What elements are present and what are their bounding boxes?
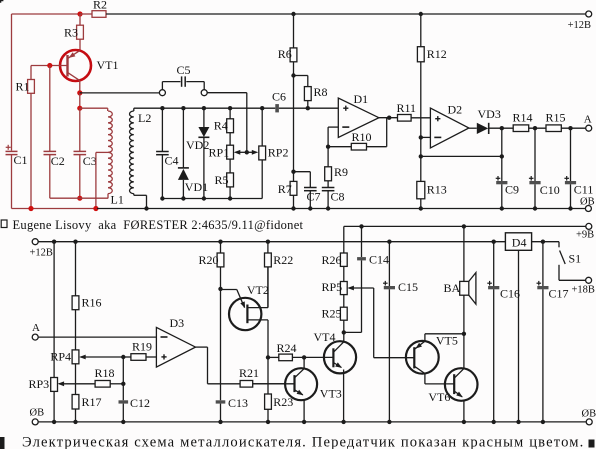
svg-text:VT3: VT3 bbox=[320, 387, 342, 401]
wire bbox=[50, 197, 108, 199]
svg-text:VT4: VT4 bbox=[314, 330, 336, 344]
resistor R12 bbox=[417, 14, 446, 181]
resistor R24 bbox=[268, 341, 333, 361]
node bbox=[387, 240, 391, 244]
op-amp D3 bbox=[156, 316, 195, 367]
wire bbox=[11, 14, 13, 151]
diode VD3 bbox=[469, 107, 513, 134]
svg-text:VD1: VD1 bbox=[185, 180, 208, 194]
node bbox=[500, 154, 504, 158]
terminal +18V bbox=[572, 277, 595, 295]
wire bus bbox=[279, 107, 338, 109]
wire bbox=[421, 155, 502, 157]
svg-text:L2: L2 bbox=[138, 111, 151, 125]
svg-text:C1: C1 bbox=[14, 153, 28, 167]
wiper bbox=[234, 150, 247, 155]
resistor R26 bbox=[322, 226, 348, 266]
resistor R19 bbox=[123, 340, 156, 361]
svg-text:R5: R5 bbox=[215, 173, 229, 187]
svg-text:C13: C13 bbox=[228, 396, 248, 410]
resistor R1 bbox=[16, 66, 35, 209]
svg-text:A: A bbox=[32, 322, 40, 334]
node bbox=[342, 330, 346, 334]
svg-text:R22: R22 bbox=[273, 253, 293, 267]
node bbox=[202, 196, 206, 200]
wire bbox=[75, 242, 77, 350]
svg-text:R17: R17 bbox=[82, 395, 102, 409]
svg-text:R10: R10 bbox=[352, 130, 372, 144]
svg-text:R15: R15 bbox=[546, 111, 566, 125]
node bbox=[291, 206, 295, 210]
node bbox=[202, 106, 206, 110]
wire bbox=[38, 336, 156, 338]
svg-text:Eugene Lisovy aka FØRESTER 2: Eugene Lisovy aka FØRESTER 2:4635/9.11@f… bbox=[13, 218, 304, 232]
node bbox=[228, 196, 232, 200]
diode VD2 bbox=[186, 108, 209, 198]
svg-text:R2: R2 bbox=[93, 0, 107, 11]
svg-text:D2: D2 bbox=[448, 102, 463, 116]
capacitor C12 bbox=[119, 396, 151, 422]
svg-text:R13: R13 bbox=[427, 183, 447, 197]
svg-text:C3: C3 bbox=[83, 154, 97, 168]
svg-text:R14: R14 bbox=[513, 111, 533, 125]
svg-text:ØВ: ØВ bbox=[30, 408, 45, 419]
svg-text:R6: R6 bbox=[278, 47, 292, 61]
terminal 0V bbox=[582, 408, 596, 425]
connector bbox=[201, 90, 207, 96]
wire bbox=[53, 242, 55, 378]
corner mark bbox=[0, 0, 3, 3]
svg-text:R11: R11 bbox=[397, 101, 417, 115]
node bbox=[462, 420, 466, 424]
node bbox=[181, 196, 185, 200]
svg-text:R8: R8 bbox=[314, 85, 328, 99]
wire bbox=[379, 117, 398, 119]
node bbox=[47, 63, 52, 68]
svg-text:S1: S1 bbox=[569, 251, 582, 265]
transistor VT2 bbox=[221, 267, 269, 358]
node bbox=[462, 332, 466, 336]
svg-text:C16: C16 bbox=[500, 286, 520, 300]
node bbox=[291, 12, 295, 16]
transistor VT5 bbox=[406, 334, 464, 384]
node bbox=[73, 420, 77, 424]
svg-text:R7: R7 bbox=[278, 182, 292, 196]
node bbox=[387, 116, 391, 120]
svg-text:VD2: VD2 bbox=[186, 138, 209, 152]
transistor VT6 bbox=[428, 334, 477, 422]
transistor VT1 bbox=[31, 50, 119, 81]
svg-text:RP3: RP3 bbox=[29, 377, 50, 391]
potentiometer RP4 bbox=[50, 350, 79, 364]
node bbox=[121, 382, 125, 386]
svg-text:C15: C15 bbox=[398, 280, 418, 294]
node bbox=[245, 150, 249, 154]
svg-text:RP4: RP4 bbox=[50, 350, 71, 364]
node bbox=[144, 206, 148, 210]
svg-text:VT1: VT1 bbox=[97, 58, 119, 72]
svg-text:+9В: +9В bbox=[576, 230, 594, 241]
node bbox=[492, 240, 496, 244]
node bbox=[73, 240, 77, 244]
capacitor C16 bbox=[487, 242, 520, 422]
node bbox=[541, 240, 545, 244]
svg-text:R20: R20 bbox=[199, 253, 219, 267]
capacitor C14 bbox=[344, 226, 389, 332]
inductor L2 bbox=[130, 108, 152, 208]
wiper bbox=[247, 150, 258, 155]
wire bbox=[293, 76, 295, 182]
wire bbox=[79, 108, 81, 151]
resistor R9 bbox=[325, 147, 348, 181]
svg-text:C17: C17 bbox=[549, 286, 569, 300]
node bbox=[419, 12, 423, 16]
resistor R6 bbox=[278, 14, 297, 76]
terminal A bbox=[32, 322, 40, 340]
wire bbox=[303, 357, 305, 368]
wire +9V line bbox=[344, 225, 586, 227]
node bbox=[419, 154, 423, 158]
resistor R21 bbox=[239, 366, 285, 387]
wire bbox=[196, 347, 241, 384]
op-amp D1 bbox=[338, 92, 379, 137]
node bbox=[291, 170, 295, 174]
svg-text:R9: R9 bbox=[334, 165, 348, 179]
wire bbox=[12, 13, 81, 15]
node bbox=[308, 206, 312, 210]
svg-text:R16: R16 bbox=[82, 296, 102, 310]
capacitor C9 bbox=[496, 128, 519, 208]
resistor R5 bbox=[215, 159, 234, 198]
potentiometer RP3 bbox=[29, 377, 58, 422]
wire bus bbox=[134, 107, 275, 109]
terminal +12V bbox=[568, 11, 592, 31]
resistor R25 bbox=[322, 295, 348, 333]
svg-text:VT2: VT2 bbox=[247, 283, 269, 297]
svg-text:R26: R26 bbox=[322, 253, 342, 267]
resistor R15 bbox=[546, 111, 586, 132]
capacitor C1 bbox=[6, 145, 28, 209]
resistor R8 bbox=[294, 76, 328, 109]
resistor R23 bbox=[265, 357, 294, 422]
resistor R10 bbox=[328, 118, 387, 150]
diode VD1 bbox=[178, 108, 208, 198]
resistor R7 bbox=[278, 181, 297, 208]
svg-text:R21: R21 bbox=[239, 366, 259, 380]
resistor R20 bbox=[199, 242, 224, 289]
node bbox=[533, 206, 537, 210]
terminal A bbox=[584, 113, 592, 131]
svg-text:C8: C8 bbox=[331, 189, 345, 203]
node bbox=[228, 106, 232, 110]
node bbox=[492, 420, 496, 424]
resistor R22 bbox=[265, 242, 294, 308]
resistor R3 bbox=[64, 14, 83, 51]
wiper bbox=[347, 286, 414, 358]
terminal 0V bbox=[30, 408, 45, 425]
transistor VT4 bbox=[314, 330, 357, 422]
node bbox=[359, 224, 363, 228]
node bbox=[462, 224, 466, 228]
inductor L1 bbox=[80, 108, 124, 206]
wire 0V rail bbox=[38, 421, 586, 423]
node bbox=[77, 90, 82, 95]
wire bbox=[328, 127, 338, 147]
svg-text:C6: C6 bbox=[272, 90, 286, 104]
regulator D4 bbox=[505, 233, 559, 422]
text bbox=[0, 434, 595, 449]
wire bbox=[106, 13, 586, 15]
svg-text:R3: R3 bbox=[64, 25, 78, 39]
wire bbox=[49, 66, 51, 152]
capacitor C13 bbox=[216, 289, 248, 422]
node bbox=[326, 206, 330, 210]
wire bbox=[79, 93, 81, 108]
resistor R14 bbox=[513, 111, 547, 132]
speaker BA bbox=[444, 273, 476, 334]
wire bbox=[79, 81, 81, 93]
svg-text:C11: C11 bbox=[574, 182, 594, 196]
wire bbox=[162, 198, 262, 200]
resistor R4 bbox=[214, 108, 234, 133]
potentiometer RP1 bbox=[209, 133, 234, 160]
switch S1 bbox=[559, 242, 586, 281]
wire 0V rail bbox=[97, 208, 585, 210]
svg-text:BA: BA bbox=[444, 281, 461, 295]
node bbox=[181, 106, 185, 110]
wire bbox=[207, 93, 247, 153]
potentiometer RP5 bbox=[322, 266, 348, 294]
node bbox=[568, 126, 572, 130]
node bbox=[516, 420, 520, 424]
svg-text:+12В: +12В bbox=[30, 247, 53, 258]
svg-text:D3: D3 bbox=[170, 316, 185, 330]
capacitor C10 bbox=[529, 128, 560, 208]
capacitor C8 bbox=[322, 181, 345, 209]
svg-text:ØВ: ØВ bbox=[582, 408, 596, 419]
node bbox=[341, 420, 345, 424]
svg-text:VT6: VT6 bbox=[428, 390, 450, 404]
svg-text:ØВ: ØВ bbox=[580, 196, 595, 207]
node bbox=[121, 420, 125, 424]
svg-text:Электрическая схема металлоиск: Электрическая схема металлоискателя. Пер… bbox=[22, 434, 584, 449]
node bbox=[160, 196, 164, 200]
node bbox=[52, 240, 56, 244]
resistor R11 bbox=[397, 101, 431, 121]
svg-text:VT5: VT5 bbox=[436, 334, 458, 348]
svg-text:D4: D4 bbox=[512, 235, 527, 249]
wire bbox=[80, 92, 160, 94]
terminal +12V bbox=[30, 239, 53, 259]
resistor R2 bbox=[80, 0, 107, 17]
svg-text:R19: R19 bbox=[132, 340, 152, 354]
node bbox=[266, 420, 270, 424]
wire tap bbox=[96, 152, 108, 208]
capacitor C3 bbox=[74, 151, 97, 198]
svg-text:D1: D1 bbox=[354, 92, 369, 106]
resistor R16 bbox=[72, 296, 101, 310]
node bbox=[28, 206, 33, 211]
svg-text:R25: R25 bbox=[322, 307, 342, 321]
node bbox=[326, 145, 330, 149]
wire bbox=[12, 208, 98, 210]
resistor R13 bbox=[417, 181, 447, 208]
capacitor C6 bbox=[272, 90, 286, 113]
svg-text:+18В: +18В bbox=[572, 285, 595, 296]
node bbox=[500, 126, 504, 130]
node bbox=[218, 240, 222, 244]
svg-text:RP1: RP1 bbox=[209, 146, 230, 160]
wire bbox=[122, 357, 124, 400]
resistor R17 bbox=[72, 364, 101, 422]
node bbox=[419, 206, 423, 210]
capacitor C2 bbox=[44, 151, 65, 198]
node bbox=[291, 73, 295, 77]
capacitor C17 bbox=[537, 242, 569, 422]
node bbox=[533, 126, 537, 130]
node bbox=[419, 135, 423, 139]
transistor VT3 bbox=[253, 368, 342, 422]
wire bbox=[463, 226, 465, 281]
node bbox=[306, 106, 310, 110]
node bbox=[218, 420, 222, 424]
wiper bbox=[58, 381, 96, 386]
node bbox=[160, 106, 164, 110]
node bbox=[387, 420, 391, 424]
node bbox=[500, 206, 504, 210]
node bbox=[266, 240, 270, 244]
capacitor C7 bbox=[294, 172, 321, 209]
svg-text:C14: C14 bbox=[369, 253, 389, 267]
wiper bbox=[79, 355, 123, 360]
resistor R18 bbox=[95, 366, 124, 387]
node bbox=[77, 106, 82, 111]
svg-text:C4: C4 bbox=[165, 153, 179, 167]
svg-text:R1: R1 bbox=[16, 79, 30, 93]
op-amp D2 bbox=[430, 102, 469, 147]
node bbox=[302, 355, 306, 359]
svg-text:+12В: +12В bbox=[568, 20, 591, 31]
svg-text:R12: R12 bbox=[427, 47, 447, 61]
connector bbox=[159, 90, 165, 96]
node bbox=[77, 11, 82, 16]
node bbox=[77, 196, 82, 201]
terminal +9V bbox=[576, 223, 594, 240]
svg-text:C2: C2 bbox=[51, 154, 65, 168]
wire bbox=[421, 136, 431, 138]
wire +12V rail bbox=[38, 241, 505, 243]
svg-text:R24: R24 bbox=[277, 341, 297, 355]
capacitor C4 bbox=[156, 108, 178, 198]
node bbox=[568, 206, 572, 210]
node bbox=[218, 287, 222, 291]
svg-text:C9: C9 bbox=[505, 182, 519, 196]
svg-text:A: A bbox=[584, 113, 592, 125]
node bbox=[302, 420, 306, 424]
svg-text:VD3: VD3 bbox=[478, 107, 501, 121]
node bbox=[541, 420, 545, 424]
potentiometer RP2 bbox=[259, 108, 289, 198]
svg-text:C7: C7 bbox=[307, 189, 321, 203]
capacitor C15 bbox=[383, 242, 418, 422]
text bbox=[1, 218, 303, 232]
svg-text:C5: C5 bbox=[177, 63, 191, 77]
svg-text:R18: R18 bbox=[95, 366, 115, 380]
svg-text:C10: C10 bbox=[540, 183, 560, 197]
node bbox=[52, 420, 56, 424]
node bbox=[266, 355, 270, 359]
node bbox=[93, 206, 98, 211]
svg-text:L1: L1 bbox=[111, 192, 124, 206]
svg-text:C12: C12 bbox=[130, 396, 150, 410]
node bbox=[121, 355, 125, 359]
svg-text:RP5: RP5 bbox=[322, 280, 343, 294]
terminal 0V bbox=[580, 196, 595, 211]
capacitor C11 bbox=[564, 128, 593, 208]
capacitor C5 bbox=[162, 63, 204, 90]
svg-text:R4: R4 bbox=[214, 119, 228, 133]
node bbox=[260, 106, 264, 110]
svg-text:RP2: RP2 bbox=[268, 146, 289, 160]
